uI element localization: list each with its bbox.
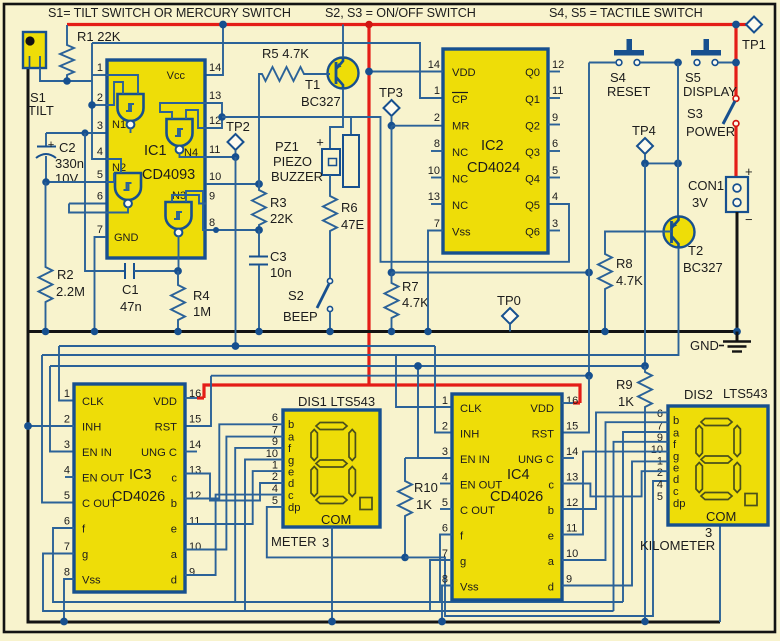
svg-text:4: 4 xyxy=(64,465,70,477)
svg-text:12: 12 xyxy=(566,497,578,509)
svg-text:c: c xyxy=(673,486,679,498)
svg-text:4.7K: 4.7K xyxy=(402,295,429,310)
svg-text:VDD: VDD xyxy=(153,396,177,408)
wire bus y355 drop to IC4 CLK xyxy=(396,355,452,407)
svg-text:10V: 10V xyxy=(55,171,78,186)
wire IC3 g drop xyxy=(43,554,614,612)
svg-text:14: 14 xyxy=(209,62,221,74)
wire IC4 f drop xyxy=(440,535,452,603)
svg-text:IC3: IC3 xyxy=(129,467,152,483)
svg-text:R1 22K: R1 22K xyxy=(77,29,121,44)
svg-text:C OUT: C OUT xyxy=(82,498,117,510)
svg-text:N2: N2 xyxy=(112,162,126,174)
node TP4/R9 bus xyxy=(641,362,649,370)
node VDD tap xyxy=(365,68,373,76)
svg-text:c: c xyxy=(288,490,294,502)
svg-text:2: 2 xyxy=(97,92,103,104)
svg-text:Vss: Vss xyxy=(452,227,471,239)
svg-text:10n: 10n xyxy=(270,265,292,280)
svg-text:8: 8 xyxy=(64,567,70,579)
svg-text:6: 6 xyxy=(552,138,558,150)
wire red right vertical lower xyxy=(734,126,737,177)
tactile switch S5 xyxy=(683,39,737,99)
wire CON1 minus black xyxy=(736,212,739,332)
node S5 on red xyxy=(732,59,740,67)
wire reset to IC4 RST xyxy=(562,376,589,433)
svg-text:b: b xyxy=(548,505,554,517)
wire buzzer top tap xyxy=(350,117,352,135)
svg-text:R7: R7 xyxy=(402,279,419,294)
svg-text:a: a xyxy=(548,556,555,568)
svg-text:1K: 1K xyxy=(618,394,634,409)
svg-text:2: 2 xyxy=(272,471,278,483)
wire NC stubs left xyxy=(431,150,443,152)
svg-text:14: 14 xyxy=(189,439,201,451)
wire Vcc net x92 xyxy=(92,43,106,159)
resistor R9 1K xyxy=(616,366,652,622)
svg-text:KILOMETER: KILOMETER xyxy=(640,538,715,553)
svg-text:CD4093: CD4093 xyxy=(142,167,195,183)
node R1/S1 xyxy=(63,77,71,85)
wire IC4 C OUT stub xyxy=(440,508,452,510)
svg-text:d: d xyxy=(673,474,679,486)
svg-text:4.7K: 4.7K xyxy=(616,273,643,288)
wire IC4 pin14 stub xyxy=(562,457,574,459)
wire TP2 riser to bus xyxy=(235,157,237,346)
node R4 gnd xyxy=(174,328,182,336)
capacitor C2 330n xyxy=(36,133,84,186)
svg-text:EN OUT: EN OUT xyxy=(82,473,124,485)
svg-text:3: 3 xyxy=(64,439,70,451)
wire red stub IC3 pin16 xyxy=(197,396,204,399)
7-segment digit DIS2 xyxy=(696,419,757,506)
wire N4 pins 13/12 tee xyxy=(206,103,222,128)
svg-text:12: 12 xyxy=(189,490,201,502)
resistor R10 1K xyxy=(398,458,438,557)
resistor R5 4.7K xyxy=(259,46,311,184)
wire x418 drop to IC4 EN IN xyxy=(418,366,452,458)
node x222 xyxy=(218,113,226,121)
svg-text:10: 10 xyxy=(266,448,278,460)
svg-text:5: 5 xyxy=(272,495,278,507)
node DIS1 COM gnd xyxy=(328,618,336,626)
wire pin2 stub xyxy=(92,104,106,106)
svg-text:6: 6 xyxy=(97,191,103,203)
svg-text:Q3: Q3 xyxy=(525,147,540,159)
wire f link xyxy=(623,432,668,602)
svg-text:C3: C3 xyxy=(270,249,287,264)
svg-text:TP2: TP2 xyxy=(226,119,250,134)
svg-text:4: 4 xyxy=(272,483,278,495)
svg-text:DISPLAY: DISPLAY xyxy=(683,84,737,99)
svg-text:R5 4.7K: R5 4.7K xyxy=(262,46,309,61)
svg-text:Q5: Q5 xyxy=(525,200,540,212)
svg-text:R10: R10 xyxy=(414,480,438,495)
wire IC4 Vss drop xyxy=(442,586,452,622)
resistor R6 47E xyxy=(323,175,364,278)
wire S4 right link xyxy=(640,62,678,64)
svg-text:CP: CP xyxy=(452,94,468,106)
node S2 gnd xyxy=(326,328,334,336)
svg-text:13: 13 xyxy=(428,191,440,203)
black ground rail xyxy=(28,330,737,333)
svg-text:3: 3 xyxy=(705,525,712,540)
test point TP3 xyxy=(379,85,403,126)
resistor R7 4.7K xyxy=(385,273,430,332)
svg-text:TP3: TP3 xyxy=(379,85,403,100)
wire IC4 EN OUT stub xyxy=(440,483,452,485)
svg-text:9: 9 xyxy=(209,191,215,203)
wire DIS1 COM drop xyxy=(331,527,333,622)
wire reset to IC3 RST xyxy=(185,376,211,426)
svg-text:S2, S3 = ON/OFF SWITCH: S2, S3 = ON/OFF SWITCH xyxy=(325,6,476,20)
node TP2 xyxy=(232,153,240,161)
resistor R1 22K xyxy=(60,25,121,81)
svg-text:a: a xyxy=(171,549,178,561)
svg-text:4: 4 xyxy=(657,479,663,491)
svg-text:2: 2 xyxy=(657,467,663,479)
svg-text:8: 8 xyxy=(209,217,215,229)
svg-text:BC327: BC327 xyxy=(301,94,341,109)
node red mid tee xyxy=(365,21,373,29)
wire a link pin10 xyxy=(185,437,283,550)
svg-text:6: 6 xyxy=(657,408,663,420)
wire T1 emitter to +V xyxy=(342,25,344,58)
svg-text:d: d xyxy=(288,478,294,490)
transistor T2 BC327 xyxy=(664,217,723,276)
svg-text:RST: RST xyxy=(155,422,178,434)
wire pin7 GND drop xyxy=(95,237,107,332)
svg-text:T2: T2 xyxy=(688,243,703,258)
svg-text:1: 1 xyxy=(272,460,278,472)
wire x85 net to C1 xyxy=(85,133,125,271)
svg-text:8: 8 xyxy=(434,138,440,150)
piezo buzzer PZ1 xyxy=(271,135,359,188)
svg-text:PIEZO: PIEZO xyxy=(273,154,312,169)
svg-text:6: 6 xyxy=(272,412,278,424)
wire T2 bottom to bus xyxy=(42,248,679,356)
svg-text:1K: 1K xyxy=(416,497,432,512)
svg-text:15: 15 xyxy=(189,414,201,426)
svg-text:C OUT: C OUT xyxy=(460,505,495,517)
wire b link pin12 xyxy=(562,412,668,509)
svg-text:1: 1 xyxy=(97,62,103,74)
svg-text:9: 9 xyxy=(272,436,278,448)
test point TP0 xyxy=(497,293,521,332)
node IC4 Vss gnd xyxy=(438,618,446,626)
svg-text:R6: R6 xyxy=(341,200,358,215)
svg-text:C1: C1 xyxy=(122,282,139,297)
wire pin6 stub xyxy=(69,203,106,205)
wire red stub IC4 pin16 xyxy=(573,401,580,404)
wire pin5 to R2/C2 xyxy=(46,181,106,183)
wire g link xyxy=(245,460,283,612)
svg-text:b: b xyxy=(171,498,177,510)
wire red bottom horizontal xyxy=(204,385,580,403)
svg-text:10: 10 xyxy=(209,171,221,183)
node Vss gnd xyxy=(424,328,432,336)
svg-text:7: 7 xyxy=(97,224,103,236)
svg-text:9: 9 xyxy=(189,567,195,579)
svg-text:EN IN: EN IN xyxy=(82,447,112,459)
IC3 CD4026 xyxy=(64,384,201,592)
node IC3 Vss gnd xyxy=(60,618,68,626)
switch S2 BEEP xyxy=(283,278,333,331)
wire a link pin10 xyxy=(562,422,668,560)
capacitor C3 10n xyxy=(249,230,292,332)
svg-text:TP4: TP4 xyxy=(632,123,656,138)
svg-text:13: 13 xyxy=(189,465,201,477)
svg-text:13: 13 xyxy=(566,472,578,484)
node R7 top xyxy=(388,269,396,277)
svg-text:COM: COM xyxy=(706,509,736,524)
wire y117 buzzer net xyxy=(222,117,569,262)
wire red right vertical upper xyxy=(734,25,737,97)
wire c link pin13 xyxy=(562,471,668,496)
svg-text:PZ1: PZ1 xyxy=(275,139,299,154)
svg-text:CON1: CON1 xyxy=(688,178,724,193)
nand gate N3 xyxy=(166,190,207,271)
svg-text:4: 4 xyxy=(97,146,103,158)
7-segment digit DIS1 xyxy=(311,423,372,510)
svg-text:RESET: RESET xyxy=(607,84,650,99)
wire dp bus around IC4 xyxy=(405,481,668,616)
svg-text:dp: dp xyxy=(288,502,300,514)
node TP4 xyxy=(641,160,649,168)
node C2/R2/pin5 xyxy=(42,178,50,186)
svg-text:IC4: IC4 xyxy=(507,467,530,483)
svg-text:12: 12 xyxy=(552,59,564,71)
wire bus y366 left drop to IC3 EN IN xyxy=(50,366,74,452)
wire TP3 down to R7 xyxy=(391,126,393,273)
node C1/R4/N3out xyxy=(174,267,182,275)
svg-text:5: 5 xyxy=(442,497,448,509)
resistor R8 4.7K xyxy=(598,232,672,332)
wire d link pin9 xyxy=(562,461,668,585)
svg-text:N1: N1 xyxy=(112,119,126,131)
svg-text:R8: R8 xyxy=(616,256,633,271)
svg-text:S2: S2 xyxy=(288,288,304,303)
svg-text:5: 5 xyxy=(657,491,663,503)
svg-text:4: 4 xyxy=(552,191,558,203)
switch S3 POWER xyxy=(686,96,739,139)
svg-text:g: g xyxy=(82,549,88,561)
wire c link pin9 xyxy=(185,495,283,575)
wire IC3 INH from gnd line xyxy=(28,425,74,427)
IC1 CD4093 xyxy=(97,60,221,258)
svg-text:10: 10 xyxy=(428,165,440,177)
svg-text:TP0: TP0 xyxy=(497,293,521,308)
node Vcc on +V xyxy=(219,21,227,29)
node C3 gnd xyxy=(255,328,263,336)
node INH gnd xyxy=(24,422,32,430)
wire e link pin11 xyxy=(185,471,283,524)
S1 tilt switch xyxy=(23,32,54,118)
wire VDD to +V xyxy=(369,71,443,73)
svg-text:T1: T1 xyxy=(305,77,320,92)
svg-text:C2: C2 xyxy=(59,140,76,155)
svg-text:dp: dp xyxy=(673,498,685,510)
test point TP1 xyxy=(736,17,766,53)
svg-text:S5: S5 xyxy=(685,70,701,85)
svg-text:Q2: Q2 xyxy=(525,121,540,133)
svg-text:1: 1 xyxy=(442,395,448,407)
svg-text:+: + xyxy=(316,135,324,150)
svg-text:14: 14 xyxy=(428,59,440,71)
wire IC3 Vss drop xyxy=(64,579,74,622)
node R10 dp bus xyxy=(401,554,409,562)
wire pin3 to C2 xyxy=(46,132,106,134)
svg-text:1: 1 xyxy=(64,388,70,400)
svg-text:METER: METER xyxy=(271,534,317,549)
wire IC1 pin14 riser xyxy=(206,25,223,76)
svg-text:7: 7 xyxy=(272,425,278,437)
svg-text:VDD: VDD xyxy=(452,67,476,79)
svg-text:2: 2 xyxy=(64,414,70,426)
svg-text:7: 7 xyxy=(64,541,70,553)
svg-text:INH: INH xyxy=(82,422,101,434)
svg-text:VDD: VDD xyxy=(530,403,554,415)
svg-text:11: 11 xyxy=(189,516,200,528)
wire bus y355 left drop to IC3 C OUT xyxy=(42,355,74,503)
display DIS1 LTS543 xyxy=(266,394,380,527)
svg-text:+: + xyxy=(48,139,55,151)
svg-text:14: 14 xyxy=(566,446,578,458)
svg-text:8: 8 xyxy=(442,574,448,586)
svg-text:47n: 47n xyxy=(120,299,142,314)
svg-text:IC2: IC2 xyxy=(481,138,504,154)
wire T1 collector to buzzer xyxy=(330,89,343,150)
node TP2 bus xyxy=(232,342,240,350)
svg-text:e: e xyxy=(673,463,679,475)
svg-text:CLK: CLK xyxy=(460,403,482,415)
svg-text:47E: 47E xyxy=(341,217,364,232)
svg-text:2: 2 xyxy=(442,421,448,433)
wire red vertical mid xyxy=(367,25,370,386)
svg-text:11: 11 xyxy=(566,523,577,535)
wire dp link xyxy=(267,507,405,558)
svg-text:BEEP: BEEP xyxy=(283,309,318,324)
wire pin10 to R3 xyxy=(206,183,259,185)
ground symbol xyxy=(690,332,751,354)
wire IC4 g drop xyxy=(430,560,452,611)
wire S5 right to red xyxy=(718,62,736,64)
node GND pin7 xyxy=(91,328,99,336)
wire red +V top rail xyxy=(67,23,736,26)
svg-text:4: 4 xyxy=(442,472,448,484)
IC2 CD4024 xyxy=(428,49,565,253)
svg-text:22K: 22K xyxy=(270,211,293,226)
svg-text:10: 10 xyxy=(651,444,663,456)
svg-text:NC: NC xyxy=(452,174,468,186)
svg-text:MR: MR xyxy=(452,121,469,133)
node reset bus xyxy=(585,372,593,380)
svg-text:1M: 1M xyxy=(193,304,211,319)
svg-text:TP1: TP1 xyxy=(742,37,766,52)
svg-text:R2: R2 xyxy=(57,267,74,282)
svg-text:6: 6 xyxy=(64,516,70,528)
wire bus y366 xyxy=(50,365,646,367)
svg-text:COM: COM xyxy=(321,512,351,527)
svg-text:11: 11 xyxy=(552,85,563,97)
resistor R3 22K xyxy=(252,184,293,230)
wire TP4 down to R9 xyxy=(644,163,646,366)
svg-text:EN OUT: EN OUT xyxy=(460,480,502,492)
svg-text:g: g xyxy=(460,556,466,568)
svg-text:Q6: Q6 xyxy=(525,227,540,239)
svg-text:BUZZER: BUZZER xyxy=(271,169,323,184)
wire DIS2 COM riser xyxy=(719,525,721,622)
wire d link pin13 xyxy=(185,474,283,501)
wire Q stubs right xyxy=(548,71,560,73)
svg-text:CD4026: CD4026 xyxy=(112,489,165,505)
svg-text:a: a xyxy=(288,432,295,444)
svg-text:GND: GND xyxy=(114,232,139,244)
node R7 gnd xyxy=(388,328,396,336)
tactile switch S4 xyxy=(607,39,650,99)
resistor R4 1M xyxy=(171,271,211,332)
svg-text:g: g xyxy=(673,451,679,463)
svg-text:7: 7 xyxy=(434,218,440,230)
svg-text:2.2M: 2.2M xyxy=(56,284,85,299)
test point TP4 xyxy=(632,123,656,163)
svg-text:R3: R3 xyxy=(270,195,287,210)
svg-text:NC: NC xyxy=(452,147,468,159)
node pin2 xyxy=(88,101,96,109)
node x418 xyxy=(414,362,422,370)
svg-text:d: d xyxy=(171,575,177,587)
svg-text:d: d xyxy=(548,582,554,594)
svg-text:3: 3 xyxy=(442,446,448,458)
test point TP2 xyxy=(226,119,250,157)
svg-text:R9: R9 xyxy=(616,377,633,392)
wire bus y346 xyxy=(59,345,435,347)
nand gate N1 xyxy=(106,75,144,133)
node TP3 xyxy=(388,122,396,130)
capacitor C1 47n xyxy=(120,263,178,314)
wire Vss drop xyxy=(428,231,443,332)
wire R5 to T1 base xyxy=(311,73,331,75)
svg-text:16: 16 xyxy=(566,395,578,407)
node S4/S5 junction xyxy=(674,59,682,67)
svg-text:e: e xyxy=(171,524,177,536)
svg-text:CLK: CLK xyxy=(82,396,104,408)
wire IC3 EN OUT stub xyxy=(65,476,74,478)
wire bus y346 left drop to IC3 CLK xyxy=(59,346,74,401)
svg-text:LTS543: LTS543 xyxy=(723,386,768,401)
wire f link xyxy=(235,448,283,602)
transistor T1 BC327 xyxy=(301,58,359,110)
svg-text:a: a xyxy=(673,428,680,440)
wire reset link y272 xyxy=(392,272,590,274)
node pin9 join xyxy=(213,227,219,233)
svg-text:TILT: TILT xyxy=(28,103,54,118)
svg-text:R4: R4 xyxy=(193,288,210,303)
svg-text:Q4: Q4 xyxy=(525,174,540,186)
svg-text:9: 9 xyxy=(566,574,572,586)
wire pin1 stub xyxy=(92,74,106,76)
wire IC3 pin14 stub xyxy=(185,451,197,453)
svg-text:N3: N3 xyxy=(172,190,186,202)
svg-text:5: 5 xyxy=(97,169,103,181)
wire S1 to R1 xyxy=(40,68,92,81)
svg-text:10: 10 xyxy=(566,548,578,560)
svg-text:UNG C: UNG C xyxy=(518,454,554,466)
wire pin11 to TP2 xyxy=(206,156,236,158)
svg-text:13: 13 xyxy=(209,90,221,102)
node R9 gnd xyxy=(641,618,649,626)
wire y43 Vcc-CP link xyxy=(92,43,443,98)
